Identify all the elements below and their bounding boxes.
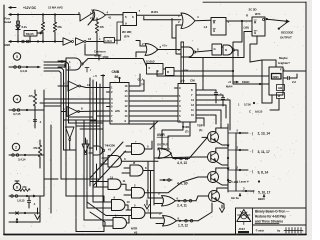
- vertical x104: [102, 146, 104, 226]
- bus tap 1: [61, 178, 100, 180]
- wire row y110: [9, 109, 44, 111]
- svg-text:4Ø93: 4Ø93: [273, 75, 280, 79]
- svg-text:47k: 47k: [57, 25, 62, 29]
- svg-text:5: 5: [147, 145, 149, 149]
- vertical x96: [92, 160, 94, 202]
- bus loop wire 3: [44, 65, 66, 196]
- U12a output wire: [80, 86, 107, 88]
- svg-text:LØØ: LØØ: [233, 180, 238, 184]
- svg-text:1,8,15: 1,8,15: [17, 199, 25, 203]
- G15 output row: [176, 220, 198, 222]
- wire mid x68 to g3: [61, 61, 63, 63]
- svg-text:2: 2: [142, 42, 144, 46]
- svg-text:.1: .1: [39, 120, 42, 124]
- or gate G14: [162, 196, 176, 207]
- wire y180 row: [160, 179, 172, 181]
- diag wire 4: [90, 212, 107, 226]
- IC U8 right pins: [129, 85, 133, 87]
- svg-text:6: 6: [177, 196, 179, 200]
- IC U9 box: [178, 84, 196, 123]
- component box LM13: [104, 38, 115, 43]
- nand gate G3: [66, 58, 81, 70]
- svg-text:+ 5: + 5: [93, 74, 97, 78]
- flip-flop U3 box: [123, 13, 137, 26]
- wire long y76: [157, 75, 269, 77]
- svg-text:#3: #3: [134, 231, 138, 235]
- G12 output: [145, 192, 161, 194]
- svg-text:3,7,15: 3,7,15: [13, 112, 21, 116]
- vertical x103: [102, 75, 104, 146]
- xor gate G1: [93, 10, 106, 21]
- G13 inputs: [126, 209, 132, 211]
- inverter U11 down: [85, 138, 87, 144]
- wire y124 cross: [129, 123, 154, 125]
- logo triangle: [237, 210, 251, 222]
- svg-text:4: 4: [179, 109, 181, 113]
- inverter U12a: [68, 81, 79, 91]
- svg-text:(1): (1): [199, 128, 202, 132]
- svg-text:←(: ←(: [249, 149, 254, 153]
- nand G11: [113, 218, 127, 229]
- SR latch U5 box: [252, 17, 265, 36]
- G2 output wire: [195, 19, 211, 22]
- svg-text:3,4,14: 3,4,14: [18, 158, 26, 162]
- transistor Q3: [208, 172, 219, 183]
- svg-text:11: 11: [123, 179, 126, 183]
- G3 output wire: [83, 59, 109, 65]
- U9 right wire13: [200, 100, 231, 130]
- capacitor C2 .1: [34, 119, 36, 122]
- title block divider horizontal: [253, 224, 307, 226]
- bus loop wire 1: [44, 71, 61, 179]
- mark near rail: [229, 180, 231, 182]
- G17 input drop: [176, 38, 181, 54]
- G14 diagonal to Q3: [196, 196, 198, 201]
- wire from G3 to IC pins: [98, 55, 100, 60]
- vertical x84: [83, 120, 85, 220]
- output row 2: [236, 149, 248, 151]
- resistor R5 horizontal: [20, 189, 30, 192]
- wire from LM13 to FF1: [115, 26, 124, 41]
- svg-text:S: S: [213, 29, 215, 33]
- U10 bottom wires: [262, 95, 272, 103]
- G16 input drop: [136, 41, 140, 47]
- G11 output wire: [127, 216, 130, 224]
- svg-text:5: 5: [179, 114, 181, 118]
- svg-text:11: 11: [191, 108, 194, 112]
- wire U6-U7: [163, 68, 166, 70]
- svg-text:8: 8: [111, 119, 113, 123]
- row L 5,7,M: [253, 102, 255, 104]
- svg-text:47k: 47k: [22, 185, 27, 189]
- bus tap 3: [64, 149, 77, 151]
- svg-text:3, 11, 17: 3, 11, 17: [258, 150, 270, 154]
- SR latch U4 box: [211, 18, 226, 36]
- svg-text:2: 2: [15, 145, 17, 149]
- svg-text:8: 8: [197, 48, 199, 52]
- nand G10: [112, 200, 126, 211]
- svg-text:2, 13, 14: 2, 13, 14: [258, 132, 271, 136]
- wire G12row to gates: [160, 177, 198, 193]
- resistor R6 47k: [95, 22, 98, 33]
- svg-text:D: D: [225, 48, 227, 52]
- inverter U2b: [76, 38, 85, 45]
- G8 output wire: [143, 170, 154, 172]
- svg-text:bead: bead: [5, 20, 12, 24]
- junction dots on +12V rail: [17, 13, 19, 15]
- svg-text:4: 4: [63, 82, 65, 86]
- half-latch box U6: [147, 64, 164, 75]
- and gate G7: [132, 144, 145, 155]
- Q4 collector wire: [217, 188, 228, 192]
- diag wire 2: [93, 151, 126, 187]
- inverter U11b down: [66, 127, 75, 139]
- tee mark: [86, 68, 88, 73]
- svg-text:8: 8: [16, 185, 18, 189]
- U8 right pin1 wire: [133, 74, 141, 86]
- wire row y213: [9, 212, 40, 214]
- svg-text:10: 10: [191, 113, 194, 117]
- svg-text:S: S: [254, 31, 256, 35]
- svg-text:BB15: BB15: [258, 197, 265, 201]
- svg-text:2, 4, 11: 2, 4, 11: [177, 204, 187, 208]
- bus h wire y126: [76, 125, 100, 127]
- svg-text:Ø-Ø1: Ø-Ø1: [151, 10, 158, 14]
- svg-text:CMB: CMB: [112, 70, 120, 74]
- title block divider vertical: [252, 208, 254, 235]
- rail to bus links: [228, 132, 236, 134]
- wire Q2 base: [154, 157, 196, 158]
- +12V input arrow: [9, 7, 16, 9]
- svg-text:13: 13: [125, 99, 128, 103]
- resistor R4: [39, 140, 41, 145]
- decode output arrow: [286, 20, 290, 23]
- nand gate G17: [181, 47, 194, 57]
- svg-text:R: R: [254, 21, 257, 25]
- U8 wire pin4: [40, 102, 107, 104]
- svg-text:9: 9: [179, 86, 181, 90]
- svg-text:1, 5, 12: 1, 5, 12: [178, 224, 188, 228]
- collector rail x228: [227, 124, 229, 192]
- wire row y62 long: [108, 59, 147, 67]
- svg-text:4: 4: [197, 15, 199, 19]
- svg-text:8: 8: [191, 88, 193, 92]
- wire U7 right long: [174, 70, 233, 72]
- svg-text:5: 5: [134, 204, 136, 208]
- svg-text:+12V DC: +12V DC: [23, 6, 37, 10]
- U4 to U5 wire: [226, 20, 252, 22]
- Q3 emitter wire: [216, 181, 228, 185]
- bus h wire y120: [64, 119, 97, 121]
- U8 wire pin6: [93, 110, 107, 112]
- G10 output wire: [125, 205, 128, 210]
- wire x157 vertical: [156, 71, 158, 77]
- G15 diagonal wire: [198, 203, 212, 221]
- G7 output wire: [145, 141, 153, 149]
- svg-text:4: 4: [16, 97, 18, 101]
- G16 output wire: [157, 49, 180, 51]
- svg-text:4: 4: [107, 11, 109, 15]
- ground arrow right: [221, 205, 223, 208]
- U9 right wire10: [200, 115, 217, 124]
- svg-text:CM: CM: [190, 79, 195, 83]
- small box U18: [212, 44, 222, 55]
- wire FEED to U10: [252, 83, 269, 85]
- G6 output wire: [122, 160, 159, 162]
- svg-text:←(: ←(: [249, 132, 254, 136]
- bus tap 2: [66, 196, 104, 202]
- cap C4: [200, 90, 217, 92]
- svg-text:L0L3: L0L3: [106, 39, 113, 43]
- svg-text:←(: ←(: [249, 170, 254, 174]
- wire inverters to box: [86, 41, 104, 43]
- vertical x93: [92, 80, 94, 160]
- svg-text:12: 12: [191, 103, 194, 107]
- U8 right pin2 wire: [133, 80, 145, 91]
- rail arrowheads: [227, 145, 229, 148]
- or gate G15: [163, 216, 177, 227]
- bus loop wire 4: [44, 62, 69, 123]
- svg-text:+: +: [135, 140, 137, 144]
- cap C5: [200, 95, 224, 97]
- svg-text:9: 9: [125, 119, 127, 123]
- bus loop wire 2: [44, 68, 64, 150]
- svg-text:5: 5: [16, 55, 18, 59]
- bus wire U8-U9 1: [133, 95, 175, 97]
- junction dots ground rail: [17, 40, 19, 42]
- svg-text:6.2v: 6.2v: [22, 25, 28, 29]
- U9 right wire11: [200, 110, 222, 128]
- svg-text:6: 6: [111, 109, 113, 113]
- svg-text:2: 2: [179, 99, 181, 103]
- svg-text:I4WR: I4WR: [157, 133, 165, 137]
- svg-text:C: C: [249, 110, 251, 114]
- svg-text:#1: #1: [108, 148, 111, 152]
- inverter U12b: [67, 107, 78, 117]
- svg-text:3,4,11: 3,4,11: [20, 69, 28, 73]
- diag wire 1: [90, 142, 123, 182]
- svg-text:2: 2: [178, 20, 180, 24]
- svg-text:86: 86: [115, 75, 119, 79]
- svg-text:ØC ØR: ØC ØR: [122, 30, 132, 34]
- resistor R2 top: [54, 15, 56, 23]
- svg-text:2: 2: [148, 209, 150, 213]
- Q3 collector wire: [216, 168, 228, 173]
- svg-text:6: 6: [132, 15, 134, 19]
- Q1 collector wire: [216, 128, 228, 133]
- bus h wire y123: [69, 122, 104, 124]
- U8 wire pin8: [90, 120, 107, 122]
- svg-text:R: R: [167, 70, 169, 74]
- small box U10c: [277, 93, 285, 99]
- U9 right wire12: [200, 105, 227, 118]
- vertical x150b: [150, 171, 152, 219]
- U8 wire pin5: [44, 105, 61, 107]
- G9 output wire: [121, 184, 126, 190]
- svg-text:GB: GB: [278, 86, 282, 90]
- resistor R3 47k: [34, 90, 36, 94]
- svg-text:2: 2: [134, 184, 136, 188]
- svg-text:1: 1: [111, 86, 113, 90]
- svg-text:G: G: [214, 47, 217, 51]
- FF1 to G2 wires: [137, 14, 182, 16]
- G2 third input: [176, 24, 182, 26]
- wire stub below reg: [29, 36, 31, 42]
- long vertical x172: [171, 19, 173, 39]
- IC U10 box: [269, 67, 283, 95]
- svg-text:9: 9: [125, 22, 127, 26]
- and gate G8: [130, 165, 143, 176]
- G17 output wire: [195, 51, 212, 53]
- border bottom: [4, 234, 306, 236]
- Q4 base wire: [198, 195, 209, 197]
- resistor R1 47k vertical: [42, 15, 44, 23]
- wire into inverter chain: [60, 41, 63, 43]
- wire top rail drop x79: [78, 13, 80, 15]
- transistor Q1: [208, 132, 219, 143]
- svg-text:16: 16: [125, 84, 128, 88]
- bus wire U8-U9 5: [133, 115, 175, 117]
- svg-text:11: 11: [125, 109, 128, 113]
- wire x262 vertical: [261, 60, 263, 103]
- Q1 base wire: [202, 136, 208, 138]
- svg-text:GLA: GLA: [138, 78, 145, 82]
- wire left long y179: [44, 178, 58, 180]
- G1 input wires: [80, 13, 94, 22]
- wire row y67: [9, 66, 40, 68]
- gate U18b: [223, 45, 233, 55]
- svg-text:47k: 47k: [100, 25, 105, 29]
- svg-text:7: 7: [111, 114, 113, 118]
- svg-text:5, 10, 17: 5, 10, 17: [258, 190, 271, 194]
- svg-text:⊥ Laser #: ⊥ Laser #: [236, 180, 249, 184]
- border right: [305, 2, 307, 235]
- svg-text:1: 1: [99, 37, 101, 41]
- svg-text:by: by: [277, 229, 281, 233]
- svg-text:8: 8: [178, 216, 180, 220]
- IC U8 left pins: [107, 87, 111, 89]
- connector circle 8: [13, 183, 20, 190]
- bus wire U8-U9 3: [133, 105, 175, 107]
- G14 output row: [175, 200, 196, 202]
- left vertical x40: [39, 196, 41, 222]
- transistor Q4: [209, 191, 220, 202]
- output row 3: [236, 169, 248, 171]
- U5 output wire: [266, 18, 268, 20]
- title block frame: [236, 208, 307, 235]
- capacitor C3 .1: [28, 196, 30, 200]
- G1 output wire: [106, 14, 124, 16]
- connector circle 2: [12, 143, 19, 150]
- svg-text:8: 8: [145, 166, 147, 170]
- svg-text:5: 5: [149, 66, 151, 70]
- vertical x100: [99, 84, 101, 179]
- IC U8 CMB86 box: [110, 83, 129, 125]
- svg-text:12: 12: [125, 104, 128, 108]
- G4 output row: [171, 153, 190, 158]
- svg-text:5: 5: [111, 105, 113, 109]
- Q2 base wire: [196, 156, 208, 158]
- svg-text:(7): (7): [185, 130, 188, 134]
- or gate G4: [158, 148, 172, 159]
- svg-text:2C 2D: 2C 2D: [249, 8, 258, 12]
- bypass connector circles on ground rail: [22, 40, 25, 43]
- cap C6 2.2: [283, 77, 287, 79]
- svg-text:15: 15: [125, 89, 128, 93]
- svg-text:←(: ←(: [250, 190, 255, 194]
- svg-text:OUTPUT: OUTPUT: [280, 36, 292, 40]
- vertical x51: [50, 125, 52, 213]
- Q3 base wire: [198, 176, 208, 178]
- or gate G2: [181, 13, 195, 29]
- svg-text:3: 3: [124, 157, 126, 161]
- svg-text:1: 1: [179, 94, 181, 98]
- Q2 collector wire: [216, 148, 228, 153]
- svg-text:3: 3: [237, 146, 239, 150]
- transistor Q2: [208, 152, 219, 163]
- svg-text:8: 8: [158, 192, 160, 196]
- svg-text:R: R: [213, 21, 216, 25]
- bus h wire y117: [69, 116, 94, 118]
- svg-text:10: 10: [125, 114, 128, 118]
- U8 wire pin7: [97, 115, 107, 117]
- svg-text:5,7,M: 5,7,M: [244, 103, 251, 107]
- nand G9: [108, 179, 121, 190]
- svg-text:6: 6: [63, 107, 65, 111]
- bus wire U8-U9 2: [133, 100, 175, 102]
- svg-text:7: 7: [139, 9, 141, 13]
- ferrite bead FB1: [17, 21, 20, 24]
- svg-text:© wrar: © wrar: [256, 229, 265, 233]
- ground arrow mid: [146, 200, 148, 205]
- svg-text:41: 41: [108, 16, 112, 20]
- G12 inputs: [126, 189, 132, 191]
- output row 1: [236, 132, 248, 134]
- and gate G6: [108, 156, 122, 168]
- wire U9 bottom: [162, 122, 183, 148]
- vertical feed x233 to IC3: [233, 70, 252, 84]
- svg-text:9, 8, 14: 9, 8, 14: [258, 171, 269, 175]
- wire under G2: [117, 22, 123, 44]
- svg-text:(1Ø): (1Ø): [244, 26, 249, 30]
- svg-text:3: 3: [179, 104, 181, 108]
- svg-text:14: 14: [125, 94, 128, 98]
- wire row y196: [9, 195, 44, 197]
- nand G13: [132, 208, 146, 219]
- inverter U2a: [63, 38, 72, 45]
- G13 output: [145, 212, 162, 214]
- U9 pin9 wire up: [180, 57, 182, 84]
- svg-text:4 5 r: 4 5 r: [162, 44, 168, 48]
- wire U4 area down: [233, 21, 242, 70]
- G3 input wires: [58, 60, 66, 62]
- svg-text:47k: 47k: [29, 94, 34, 98]
- vertical x96.5: [96, 82, 98, 150]
- output row 4: [242, 190, 254, 192]
- Q4 emitter wire: [217, 200, 224, 208]
- +12V rail wire: [9, 14, 79, 16]
- bus h wire y129: [80, 128, 103, 130]
- svg-text:2.2: 2.2: [292, 80, 296, 84]
- IC U8 top stub: [119, 78, 121, 83]
- svg-text:9,9,15: 9,9,15: [255, 110, 263, 114]
- connector circle 4: [13, 95, 20, 102]
- border left: [3, 5, 5, 235]
- svg-text:13: 13: [191, 98, 194, 102]
- vertical x92: [86, 140, 88, 208]
- nand G5: [93, 146, 103, 155]
- svg-text:1: 1: [178, 14, 180, 18]
